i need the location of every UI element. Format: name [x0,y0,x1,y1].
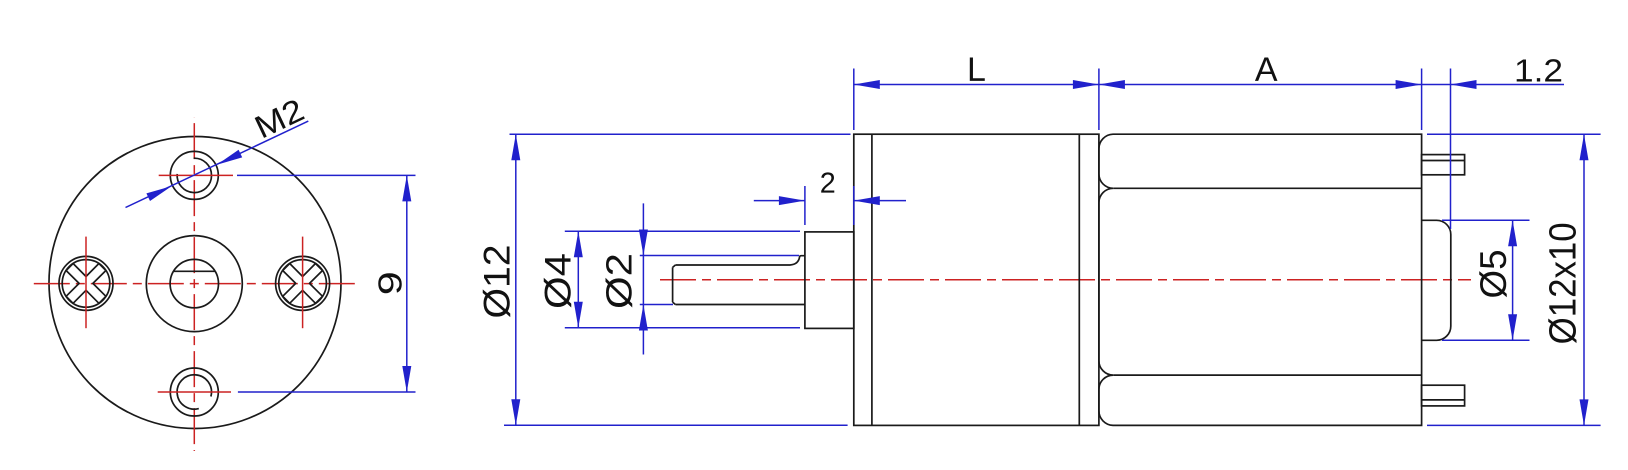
motor can outline [1099,134,1422,425]
screw head left: phillips cross [66,264,106,304]
dimension A: extension line right [1421,69,1423,131]
dimension D5: extension line bottom [1442,339,1530,341]
screw head right: outer circle [276,256,330,310]
dimension 9: arrowhead bottom [402,366,411,392]
dimension D4: arrowhead top [574,231,583,257]
svg-text:Ø4: Ø4 [537,253,578,309]
dimension D4: extension line bottom [565,327,800,329]
dimension 2: extension line right [853,186,855,225]
centerline horizontal (front view) [31,283,360,285]
screw head right: inner circle [279,260,327,308]
dimension D2: dimension line [642,203,644,354]
svg-text:Ø12x10: Ø12x10 [1542,222,1584,344]
dimension 2: arrowhead right [854,196,880,205]
dimension D2: arrowhead bottom [639,305,648,331]
screw hole bottom: red crosshair horizontal [158,391,231,393]
dimension D4: extension line top [565,230,800,232]
dimension L: arrowhead right [1073,80,1099,89]
svg-text:Ø5: Ø5 [1473,250,1514,299]
dimension A: dimension line [1099,84,1422,86]
dimension L: dimension line [854,84,1099,86]
svg-text:2: 2 [820,168,836,200]
dimension 9: arrowhead top [402,175,411,201]
svg-text:A: A [1255,51,1278,89]
dimension A: arrowhead right [1396,80,1422,89]
dimension 2: dimension line right tail [854,200,906,202]
screw hole bottom: thread arc [177,375,211,409]
dimension A: arrowhead left [1099,80,1125,89]
dimension D12: arrowhead top [511,134,520,160]
screw hole top: outer circle [170,151,218,199]
dimension D12x10: arrowhead top [1580,134,1589,160]
dimension D5: extension line top [1442,219,1530,221]
dimension D12: extension line bottom [504,424,848,426]
dimension 9: dimension line [406,175,408,392]
front view: motor face outline circle [49,137,341,429]
dimension 1.2: arrowhead [1451,80,1477,89]
dimension D2: arrowhead top [639,230,648,256]
svg-text:Ø12: Ø12 [476,245,517,319]
dimension L: arrowhead left [854,80,880,89]
shaft hole circle [170,259,218,307]
svg-text:1.2: 1.2 [1514,52,1563,88]
dimension 2: arrowhead left [779,196,805,205]
dimension D2: extension line top [640,255,799,257]
dimension D4: arrowhead bottom [574,302,583,328]
screw head left: red crosshair vertical [85,237,87,329]
svg-text:9: 9 [371,271,408,295]
dimension D12: dimension line [515,134,517,425]
motor can top seam line [1113,187,1421,189]
svg-text:Ø2: Ø2 [599,253,640,309]
screw hole top: thread arc [177,158,211,192]
centerline vertical (front view) [193,117,195,451]
dimension D4: dimension line [577,231,579,328]
screw hole top: red crosshair horizontal [159,174,233,176]
dimension L: extension line left [853,69,855,131]
dimension 1.2: dimension line tail [1422,84,1564,86]
svg-text:L: L [967,51,986,89]
dimension 9: extension line top [237,174,416,176]
centerline horizontal (side view) [660,279,1471,281]
dimension D12x10: extension line bottom [1427,424,1601,426]
dimension 9: extension line bottom [238,391,416,393]
shaft hole flat chord [174,270,216,272]
gearbox rear plate line [1078,134,1080,425]
terminal bottom [1422,385,1465,406]
dimension D12x10: extension line top [1427,133,1601,135]
output shaft [673,256,805,305]
terminal bottom slot line [1422,399,1465,401]
dimension L: extension line right / A left [1098,69,1100,131]
dimension D5: arrowhead bottom [1508,314,1517,340]
dimension D5: dimension line [1512,220,1514,340]
dimension 1.2: extension line [1450,69,1452,230]
dimension 2: extension line left [804,186,806,225]
terminal top slot line [1422,160,1465,162]
motor can bottom seam line [1113,374,1421,376]
dimension M2: arrowhead upper [217,150,242,165]
terminal top [1422,155,1465,175]
screw head right: red crosshair vertical [302,237,304,329]
rear bearing boss [1422,220,1451,340]
shaft collar bushing [805,232,854,329]
hub outer circle [146,236,242,332]
dimension M2: arrowhead lower [146,186,171,201]
svg-text:M2: M2 [249,91,310,145]
dimension 2: dimension line left tail [754,200,805,202]
gearbox housing [854,134,1099,425]
dimension D2: extension line bottom [640,304,673,306]
dimension D5: arrowhead top [1508,220,1517,246]
dimension D12: extension line top [510,133,851,135]
screw hole bottom: outer circle [170,368,218,416]
dimension M2: leader line [126,121,309,207]
screw head left: outer circle [59,256,113,310]
dimension D12x10: dimension line [1583,134,1585,425]
screw head left: inner circle [62,260,110,308]
screw head right: phillips cross [283,264,323,304]
gearbox front plate line [871,134,873,425]
dimension D12: arrowhead bottom [511,399,520,425]
dimension D12x10: arrowhead bottom [1580,399,1589,425]
